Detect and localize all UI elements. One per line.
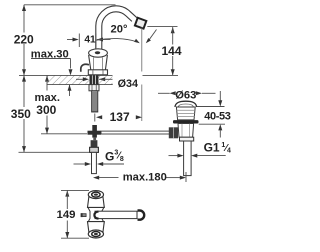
svg-text:Ø34: Ø34 bbox=[118, 78, 138, 90]
svg-text:137: 137 bbox=[110, 110, 130, 124]
svg-text:300: 300 bbox=[36, 103, 56, 117]
svg-text:41: 41 bbox=[84, 34, 96, 45]
svg-text:max.180: max.180 bbox=[123, 172, 167, 184]
svg-text:350: 350 bbox=[11, 107, 31, 121]
svg-text:144: 144 bbox=[162, 44, 182, 58]
svg-text:220: 220 bbox=[14, 33, 34, 47]
svg-text:Ø63: Ø63 bbox=[175, 90, 196, 102]
svg-text:149: 149 bbox=[57, 209, 76, 221]
svg-text:40-53: 40-53 bbox=[204, 110, 231, 122]
svg-text:G11⁄4: G11⁄4 bbox=[204, 141, 231, 155]
svg-text:20°: 20° bbox=[111, 24, 128, 36]
svg-text:max.30: max.30 bbox=[31, 48, 69, 60]
